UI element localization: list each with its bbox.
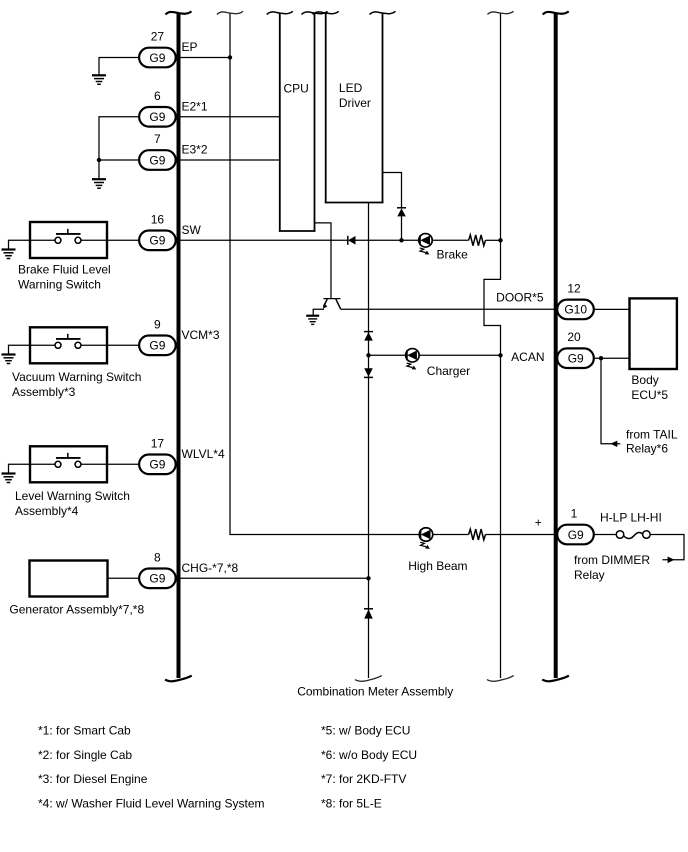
node: junction dot EP at x=230	[228, 55, 232, 59]
diode D7 (bottom diode on x=368.5 net, cathode up)	[364, 609, 373, 619]
node: junction dot charger at x=368.5	[366, 353, 370, 357]
ground G5 (S3)	[2, 474, 16, 483]
switch S3: Level Warning Switch Assembly*4	[15, 446, 130, 518]
svg-text:ACAN: ACAN	[511, 350, 544, 364]
svg-text:*6: w/o Body ECU: *6: w/o Body ECU	[321, 748, 417, 762]
wire high-beam from LED to resistor	[433, 534, 469, 536]
diode D3 (LED driver feed, cathode up)	[397, 208, 406, 217]
svg-text:G9: G9	[149, 234, 165, 248]
node: break mark bottom of x=368.5 net	[355, 676, 382, 682]
wire S2 to ground	[9, 345, 31, 354]
wire from G9 pin1 to inline connector	[594, 534, 616, 536]
svg-text:Assembly*3: Assembly*3	[12, 385, 76, 399]
svg-text:*8: for 5L-E: *8: for 5L-E	[321, 796, 382, 810]
svg-text:Warning Switch: Warning Switch	[18, 277, 101, 291]
node: break mark top of EP vertical	[217, 11, 243, 14]
svg-text:Level Warning Switch: Level Warning Switch	[15, 489, 130, 503]
wire S3 to ground	[9, 464, 31, 473]
svg-text:EP: EP	[182, 40, 198, 54]
LED D2 Brake indicator	[419, 234, 433, 255]
svg-text:*7: for 2KD-FTV: *7: for 2KD-FTV	[321, 772, 406, 786]
svg-text:Vacuum Warning Switch: Vacuum Warning Switch	[12, 370, 141, 384]
svg-text:20: 20	[567, 330, 581, 344]
wire E3*2 from connector to CPU	[177, 159, 280, 161]
wire Q1 emitter to ground	[313, 309, 324, 315]
svg-text:Relay: Relay	[574, 568, 605, 582]
connector G9 pin 16 (SW)	[139, 212, 176, 250]
svg-text:VCM*3: VCM*3	[182, 328, 220, 342]
diode D5 (charger down diode, cathode down)	[364, 368, 373, 377]
svg-text:G9: G9	[149, 572, 165, 586]
op-amp U1: CPU block	[267, 11, 328, 231]
wire SW inside meter	[177, 239, 348, 241]
wire: meter right boundary (thick vertical)	[554, 14, 558, 679]
svg-text:Relay*6: Relay*6	[626, 441, 668, 455]
svg-text:E3*2: E3*2	[182, 142, 208, 156]
node: break mark bottom of left boundary	[165, 676, 192, 682]
wire WLVL*4 from S3 to connector	[107, 463, 138, 465]
svg-text:16: 16	[151, 212, 165, 226]
svg-text:17: 17	[151, 436, 165, 450]
svg-text:G9: G9	[149, 110, 165, 124]
svg-text:12: 12	[567, 281, 581, 295]
wire DOOR*5 from Q1 collector to G10	[340, 308, 556, 310]
svg-text:SW: SW	[182, 223, 202, 237]
switch S2: Vacuum Warning Switch Assembly*3	[12, 327, 141, 399]
wire VCM*3 from S2 to connector	[107, 344, 138, 346]
connector G9 pin 1 (high beam +)	[557, 507, 594, 545]
IC: Body ECU*5 box	[630, 298, 677, 402]
svg-text:DOOR*5: DOOR*5	[496, 291, 544, 305]
svg-text:Combination Meter Assembly: Combination Meter Assembly	[297, 685, 453, 699]
svg-text:Charger: Charger	[427, 364, 470, 378]
node: break mark bottom of right boundary	[542, 676, 569, 682]
node: break mark top of right boundary	[543, 11, 569, 14]
op-amp U2: LED Driver block	[313, 11, 396, 202]
LED D6 Charger indicator	[406, 349, 420, 370]
node: junction dot shared ground pins 6/7	[97, 158, 101, 162]
wire SW from R1 to x=500.5 net	[486, 239, 501, 241]
switch S1: Brake Fluid Level Warning Switch	[18, 222, 111, 291]
svg-text:LED: LED	[339, 81, 363, 95]
wire SW from D1 to brake LED	[356, 239, 420, 241]
svg-text:*1: for Smart Cab: *1: for Smart Cab	[38, 724, 131, 738]
svg-text:G9: G9	[568, 352, 584, 366]
wire: EP vertical net x=230	[230, 14, 419, 535]
svg-text:G9: G9	[149, 153, 165, 167]
node: break mark top of left boundary	[166, 11, 192, 14]
svg-text:*3: for Diesel Engine: *3: for Diesel Engine	[38, 772, 148, 786]
svg-text:Brake Fluid Level: Brake Fluid Level	[18, 262, 111, 276]
wire: meter left boundary (thick vertical)	[177, 14, 181, 679]
node: junction dot TAIL branch	[599, 356, 603, 360]
wire E3 ground branch	[99, 160, 138, 179]
connector G9 pin 27 (EP)	[139, 30, 176, 68]
wire ACAN from LED to x=500.5 net	[419, 354, 501, 356]
svg-text:*2: for Single Cab: *2: for Single Cab	[38, 748, 132, 762]
diode D4 (charger up diode, cathode up)	[364, 332, 373, 341]
svg-text:6: 6	[154, 89, 161, 103]
wire EP ground branch	[99, 58, 138, 75]
wire DOOR from G10 to Body ECU	[594, 308, 629, 310]
connector G9 pin 9 (VCM*3)	[139, 317, 176, 355]
svg-text:ECU*5: ECU*5	[631, 388, 668, 402]
svg-text:CHG-*7,*8: CHG-*7,*8	[182, 561, 239, 575]
svg-text:8: 8	[154, 550, 161, 564]
resistor R1 (brake)	[469, 235, 486, 246]
wire SW from LED to resistor	[433, 239, 469, 241]
connector G9 pin 6 (E2*1)	[139, 89, 176, 127]
ground G6 (Q1 emitter)	[306, 316, 319, 325]
svg-text:CPU: CPU	[284, 82, 309, 96]
node: arrowhead from DIMMER relay	[668, 557, 675, 564]
node: junction dot at x=500.5 brake feed	[498, 238, 502, 242]
connector H-LP LH-HI inline pair	[616, 531, 650, 539]
svg-text:9: 9	[154, 317, 161, 331]
svg-text:H-LP LH-HI: H-LP LH-HI	[600, 511, 662, 525]
svg-text:from DIMMER: from DIMMER	[574, 553, 650, 567]
node: junction dot SW / LED-driver feed	[399, 238, 403, 242]
svg-text:7: 7	[154, 132, 161, 146]
ground G3 (S1)	[2, 250, 16, 259]
svg-text:Assembly*4: Assembly*4	[15, 504, 79, 518]
svg-text:*4: w/ Washer Fluid Level Warn: *4: w/ Washer Fluid Level Warning System	[38, 796, 265, 810]
wire E2 ground branch	[99, 117, 138, 160]
wire CHG into meter to x=368.5 net	[177, 577, 369, 579]
generator: Generator Assembly box	[9, 561, 144, 617]
wire from D3 to SW junction	[401, 216, 403, 240]
wire ACAN from junction to charger LED	[369, 354, 407, 356]
node: break mark top of x=500.5 net	[488, 11, 514, 14]
transistor Q1	[323, 299, 341, 309]
svg-text:Brake: Brake	[437, 247, 469, 261]
svg-text:Body: Body	[631, 373, 658, 387]
ground G4 (S2)	[2, 355, 16, 364]
svg-text:E2*1: E2*1	[182, 99, 208, 113]
wire SW from S1 to connector	[107, 239, 138, 241]
connector G9 pin 7 (E3*2)	[139, 132, 176, 170]
svg-text:G9: G9	[149, 458, 165, 472]
svg-text:Driver: Driver	[339, 96, 371, 110]
wire TAIL branch down with arrow	[601, 358, 620, 444]
svg-text:G9: G9	[149, 51, 165, 65]
connector G9 pin 8 (CHG)	[139, 550, 176, 588]
wire: x=368.5 vertical net from LED driver bottom	[368, 203, 370, 678]
connector G9 pin 17 (WLVL*4)	[139, 436, 176, 474]
svg-text:WLVL*4: WLVL*4	[182, 447, 225, 461]
wire ACAN from G9 to Body ECU	[594, 357, 629, 359]
LED D8 High Beam indicator	[419, 528, 433, 549]
node: junction dot ACAN at x=500.5	[498, 353, 502, 357]
svg-text:G10: G10	[564, 303, 587, 317]
svg-text:G9: G9	[568, 528, 584, 542]
svg-text:27: 27	[151, 30, 165, 44]
svg-text:Generator Assembly*7,*8: Generator Assembly*7,*8	[9, 603, 144, 617]
svg-text:*5: w/ Body ECU: *5: w/ Body ECU	[321, 724, 410, 738]
svg-text:1: 1	[571, 507, 578, 521]
wire from inline connector loop to DIMMER arrow	[650, 535, 684, 560]
ground G2 (E2/E3 shared)	[92, 179, 106, 188]
svg-text:High Beam: High Beam	[408, 559, 467, 573]
connector G10 pin 12 (DOOR)	[557, 281, 594, 319]
diode D1 on SW wire (cathode left)	[348, 236, 356, 245]
wire LED driver output stub to diode branch	[383, 173, 402, 208]
node: arrowhead from TAIL relay	[610, 441, 617, 447]
connector G9 pin 20 (ACAN)	[557, 330, 594, 368]
wire EP from connector to x=230 net	[177, 57, 230, 59]
node: break mark bottom of x=500.5 net	[487, 676, 514, 682]
svg-text:+: +	[535, 516, 542, 530]
resistor R2 (high beam)	[469, 529, 486, 540]
wire CPU base feed stub	[315, 223, 332, 298]
svg-text:from TAIL: from TAIL	[626, 427, 678, 441]
wire: illumination net x=500.5 with jog	[484, 14, 501, 679]
ground G1 (EP)	[92, 75, 106, 84]
svg-text:G9: G9	[149, 339, 165, 353]
wire CHG from generator to connector	[108, 577, 139, 579]
wire high-beam from R2 to connector G9 pin1	[486, 534, 557, 536]
wire S1 to ground	[9, 240, 31, 249]
node: junction dot CHG at x=368.5	[366, 576, 370, 580]
wire E2*1 from connector to CPU	[177, 116, 280, 118]
